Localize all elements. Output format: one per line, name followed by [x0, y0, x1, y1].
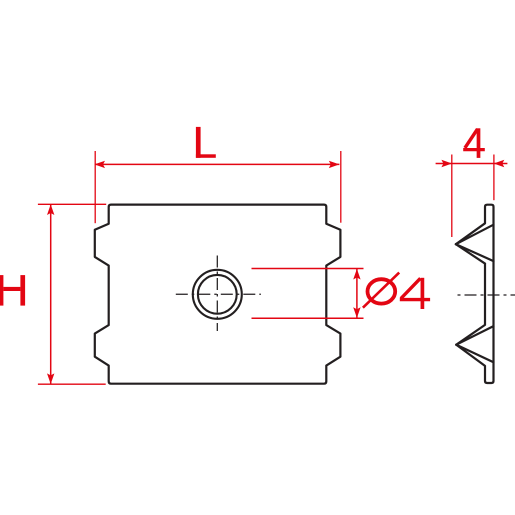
- lower tooth line A: [456, 325, 485, 345]
- label L: [196, 127, 216, 158]
- dimension Ø4 arrow top: [353, 269, 360, 280]
- upper tooth line C: [456, 244, 494, 261]
- dimension H arrow top: [47, 204, 54, 215]
- dimension H arrow bottom: [47, 373, 54, 384]
- upper tooth line D: [456, 244, 485, 263]
- dimension 4 extension line right: [493, 155, 495, 201]
- lower tooth line D: [456, 345, 485, 366]
- upper tooth line A: [456, 223, 485, 244]
- label Ø4 (diameter symbol): [363, 273, 430, 309]
- label 4: [463, 128, 485, 158]
- side view strip body (right+caps+left segments): [485, 205, 494, 383]
- side view centerline: [458, 294, 515, 296]
- dimension Ø4 leader top: [252, 268, 364, 270]
- hole horizontal centerline: [176, 293, 261, 295]
- lower tooth line C: [456, 345, 493, 363]
- label H: [0, 275, 25, 306]
- dimension 4 extension line left: [451, 155, 453, 238]
- dimension L line: [95, 163, 339, 165]
- plate outline (front view, serrated plate with side tabs): [95, 205, 341, 384]
- dimension 4 line: [436, 163, 508, 165]
- dimension Ø4 line: [356, 269, 358, 318]
- dimension L extension line left: [94, 151, 96, 223]
- dimension 4 arrow right (pointing left): [494, 160, 505, 167]
- dimension L arrow left: [94, 161, 105, 168]
- dimension H line: [50, 205, 52, 384]
- upper tooth line B: [456, 225, 494, 245]
- hole outer circle (countersink): [193, 270, 242, 319]
- dimension H extension line top: [38, 203, 106, 205]
- dimension H extension line bottom: [38, 383, 106, 385]
- side view left edge between teeth: [484, 264, 486, 325]
- dimension L arrow right: [329, 161, 340, 168]
- dimension L extension line right: [340, 151, 342, 223]
- hole inner circle Ø4: [198, 275, 237, 314]
- hole vertical centerline: [216, 256, 218, 332]
- dimension Ø4 arrow bottom: [353, 307, 360, 318]
- lower tooth line B: [456, 326, 493, 345]
- dimension Ø4 leader bottom: [252, 317, 364, 319]
- dimension 4 arrow left (pointing right): [441, 160, 452, 167]
